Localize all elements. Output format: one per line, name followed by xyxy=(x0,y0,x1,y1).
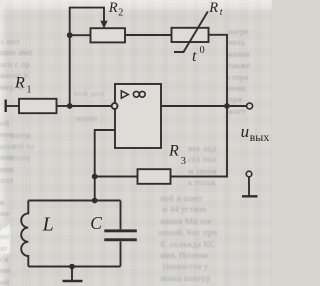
wire: node A2 to op-amp inverting input xyxy=(70,105,112,107)
svg-text:t: t xyxy=(220,7,223,18)
ghost bleed-through text: left margin bottom xyxy=(0,197,18,286)
svg-text:u: u xyxy=(241,122,250,141)
ghost bleed-through text: right of Rt xyxy=(228,26,272,142)
white patch left edge xyxy=(0,224,10,254)
ground (tank) xyxy=(71,267,73,281)
input terminal bar xyxy=(4,100,6,113)
svg-text:вых: вых xyxy=(250,130,270,144)
ghost bleed-through: small centre fragments xyxy=(74,88,132,104)
svg-text:2: 2 xyxy=(118,8,123,19)
svg-text:L: L xyxy=(42,214,54,236)
wire: right bus down to R3 row xyxy=(171,106,228,177)
label R3 xyxy=(168,143,186,167)
op-amp U1 infinity symbol xyxy=(133,91,145,97)
wire: R1 to node A2 xyxy=(57,105,70,107)
label R1 xyxy=(14,75,32,96)
label R2 xyxy=(108,0,124,18)
wire: Rt to right bus corner xyxy=(209,35,228,106)
ghost bleed-through text: bottom right block xyxy=(188,143,272,203)
svg-text:R: R xyxy=(14,75,25,92)
op-amp U1 inverting input circle xyxy=(112,103,118,109)
resistor R2 (potentiometer body) xyxy=(91,28,126,42)
svg-text:3: 3 xyxy=(181,156,186,167)
ghost bleed-through text: left margin mid xyxy=(0,118,26,198)
capacitor C branch wires xyxy=(120,201,122,230)
wire: op-amp output to node B xyxy=(161,105,227,107)
node A: junction of bus and R2 xyxy=(67,32,73,38)
label Rt xyxy=(208,0,223,18)
svg-text:R: R xyxy=(208,0,218,16)
capacitor C plates xyxy=(104,229,137,241)
wire: tank bottom xyxy=(28,266,120,268)
R2 wiper arrowhead xyxy=(100,21,107,29)
wire: terminal to R1 xyxy=(6,105,19,107)
thermistor Rt body xyxy=(172,28,209,42)
output ground bar xyxy=(242,195,258,197)
wire: node B to output terminal xyxy=(227,105,246,107)
svg-text:R: R xyxy=(168,143,179,160)
node E: ground junction xyxy=(69,264,75,270)
thermistor Rt slash xyxy=(174,12,208,53)
wire: left vertical bus from loop top down to R1 node xyxy=(70,8,104,106)
wire: op-amp non-inverting input to feedback bus xyxy=(95,130,115,201)
op-amp U1 gain triangle xyxy=(121,91,128,98)
svg-text:0: 0 xyxy=(200,45,205,56)
label u_vyh xyxy=(241,122,270,144)
svg-text:R: R xyxy=(108,0,118,16)
inductor L xyxy=(21,201,28,267)
op-amp U1 body xyxy=(115,84,161,148)
resistor R3 xyxy=(138,169,171,184)
node A2: junction R1/bus/op-amp input xyxy=(67,103,73,109)
node C: junction on feedback bus xyxy=(92,174,98,180)
wire: R3 to node C xyxy=(95,176,138,178)
ghost bleed-through text: left margin top xyxy=(0,36,62,100)
resistor R1 xyxy=(19,99,57,113)
wire: tank top xyxy=(28,200,120,202)
node D: junction feedback bus / tank top xyxy=(92,198,98,204)
svg-text:1: 1 xyxy=(27,85,32,96)
output ground terminal circle xyxy=(246,171,252,177)
output terminal circle xyxy=(247,103,253,109)
wire: R2 to Rt xyxy=(125,34,172,36)
svg-text:t: t xyxy=(192,48,197,65)
node B: output junction xyxy=(224,103,230,109)
svg-text:C: C xyxy=(90,213,102,233)
output ground stem xyxy=(248,177,250,196)
wire: node A to R2 xyxy=(70,34,91,36)
label t0 xyxy=(192,45,205,65)
